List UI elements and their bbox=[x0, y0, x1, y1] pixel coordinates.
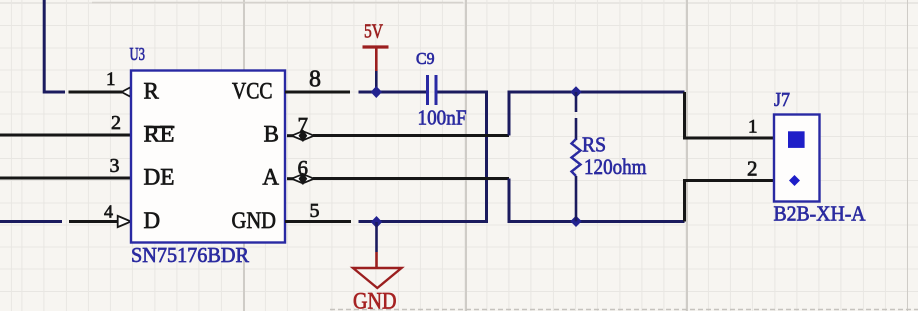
wire: B pin to staircase bbox=[313, 134, 509, 137]
ground symbol triangle bbox=[353, 268, 402, 288]
svg-text:GND: GND bbox=[232, 208, 277, 233]
wire: pin 1 (R) horizontal segment bbox=[69, 91, 123, 94]
svg-text:GND: GND bbox=[353, 289, 397, 311]
pin A bidirectional arrow glyph bbox=[287, 173, 314, 185]
svg-text:1: 1 bbox=[748, 117, 758, 138]
pin B bidirectional arrow glyph bbox=[287, 130, 314, 142]
svg-text:SN75176BDR: SN75176BDR bbox=[131, 243, 249, 267]
wire: A staircase down and across RS bottom to J7 corner bbox=[509, 179, 685, 222]
junction at RS bottom bbox=[570, 216, 581, 227]
power symbol 5V: bar bbox=[363, 45, 389, 48]
svg-text:J7: J7 bbox=[774, 89, 790, 111]
svg-text:U3: U3 bbox=[130, 44, 146, 64]
power symbol 5V: stem red part bbox=[375, 47, 378, 71]
resistor RS body (vertical with zigzag) bbox=[572, 92, 581, 221]
junction at 5V tap bbox=[371, 86, 382, 98]
wire: 5V junction to C9 left plate bbox=[359, 91, 427, 94]
capacitor C9 left plate bbox=[426, 75, 429, 105]
junction at RS top bbox=[570, 86, 581, 97]
svg-text:100nF: 100nF bbox=[418, 106, 467, 130]
svg-text:RE: RE bbox=[144, 122, 175, 147]
wire: vertical entering top-left to pin 1 (R) bbox=[44, 0, 65, 92]
overline for RE bbox=[146, 126, 175, 129]
wire: down right edge to J7 pin 1 bbox=[685, 92, 775, 138]
wire: GND pin stub from chip bbox=[285, 220, 351, 223]
svg-text:3: 3 bbox=[110, 155, 120, 177]
wire: up right edge to J7 pin 2 bbox=[685, 181, 775, 222]
wire: pin 4 (D) left segment bbox=[0, 220, 62, 223]
svg-text:120ohm: 120ohm bbox=[584, 154, 647, 179]
pin 4 input arrow at D bbox=[118, 216, 131, 227]
svg-text:B2B-XH-A: B2B-XH-A bbox=[774, 202, 867, 226]
svg-text:4: 4 bbox=[104, 202, 113, 222]
wire: B staircase up and across RS top to J7 corner bbox=[509, 92, 685, 136]
ground symbol stem navy bbox=[375, 222, 378, 252]
svg-text:DE: DE bbox=[144, 165, 175, 190]
svg-text:A: A bbox=[262, 165, 279, 190]
junction at GND tap bbox=[371, 216, 382, 228]
svg-text:VCC: VCC bbox=[232, 79, 273, 104]
svg-text:R: R bbox=[144, 79, 160, 104]
svg-text:5V: 5V bbox=[364, 21, 383, 43]
svg-text:1: 1 bbox=[106, 69, 116, 90]
pin 1 input arrow at R bbox=[122, 87, 131, 97]
wire: VCC pin to 5V junction bbox=[285, 91, 350, 94]
power symbol 5V: stem navy part bbox=[375, 71, 378, 92]
ground symbol stem red bbox=[375, 252, 378, 267]
svg-text:C9: C9 bbox=[416, 49, 435, 68]
wire: pin 4 (D) right segment bbox=[69, 220, 118, 223]
connector J7 body bbox=[774, 115, 820, 202]
svg-text:5: 5 bbox=[310, 200, 320, 222]
wire: pin 3 (DE) bbox=[0, 177, 131, 180]
capacitor C9 right plate bbox=[435, 75, 438, 105]
svg-text:D: D bbox=[144, 208, 161, 233]
wire: pin 2 (RE) bbox=[0, 134, 131, 137]
svg-text:B: B bbox=[264, 122, 279, 147]
svg-text:2: 2 bbox=[111, 112, 121, 134]
wire: A pin to staircase bbox=[313, 177, 509, 180]
wire: C9 right plate to down-corner bbox=[359, 92, 487, 222]
IC U3 SN75176BDR body bbox=[131, 71, 285, 243]
svg-text:RS: RS bbox=[582, 133, 606, 157]
svg-text:2: 2 bbox=[747, 157, 758, 181]
connector J7 pin1 square pad bbox=[788, 131, 805, 148]
connector J7 pin2 diamond bbox=[789, 175, 800, 186]
svg-text:8: 8 bbox=[309, 67, 321, 93]
